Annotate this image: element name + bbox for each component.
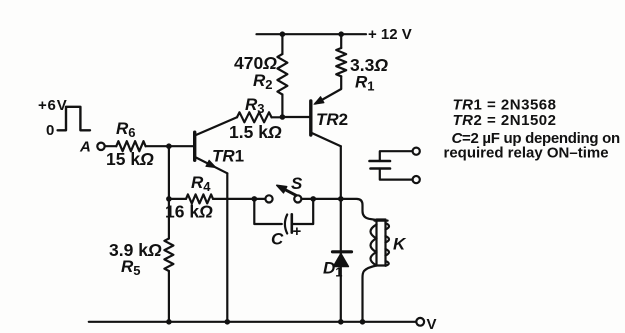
svg-text:0: 0: [46, 122, 54, 139]
node junction cap right: [310, 196, 316, 202]
terminal contact top: [413, 148, 420, 155]
diode D1: [333, 250, 352, 253]
wire R6 to TR1 base: [146, 145, 194, 147]
relay coil K: [377, 220, 386, 266]
svg-text:R5: R5: [121, 257, 141, 278]
resistor R3: [237, 112, 272, 122]
switch S left contact: [265, 195, 272, 202]
wire R1 to TR2 emitter: [316, 76, 342, 103]
wire R3 to junction: [272, 116, 283, 118]
node junction rail-R1: [338, 31, 344, 37]
wire R2 bottom lead: [281, 95, 283, 118]
switch S right contact: [294, 195, 301, 202]
terminal 0V: [416, 318, 424, 326]
node junction R2-R3-TR2base: [280, 114, 286, 120]
resistor R6: [116, 141, 145, 151]
wire +12V top rail: [257, 33, 367, 35]
wire TR2 collector vertical: [340, 146, 342, 322]
switch S blade: [283, 188, 297, 195]
node A terminal: [97, 143, 104, 150]
svg-text:required relay ON–time: required relay ON–time: [444, 145, 609, 162]
wire R1 top lead: [340, 34, 342, 48]
svg-text:R4: R4: [191, 173, 211, 194]
svg-text:C: C: [271, 230, 284, 249]
svg-text:3.9 kΩ: 3.9 kΩ: [109, 240, 162, 260]
wire relay branch: [341, 199, 377, 220]
node junction rail-relay: [360, 319, 366, 325]
source pulse waveform: [58, 107, 90, 131]
wire TR1 collector diagonal: [196, 117, 237, 135]
svg-text:S: S: [291, 174, 303, 193]
transistor TR1: [193, 132, 196, 160]
resistor R4: [186, 194, 213, 203]
wire capacitor loop right: [292, 199, 313, 224]
node junction base-R4 branch: [166, 143, 172, 149]
svg-text:R6: R6: [116, 119, 136, 140]
svg-text:R3: R3: [245, 95, 265, 116]
wire capacitor loop left: [254, 199, 281, 224]
svg-text:A: A: [79, 139, 91, 156]
node junction timing node left: [252, 196, 258, 202]
node junction rail-D1: [338, 319, 344, 325]
svg-text:TR2: TR2: [316, 110, 348, 129]
svg-text:+6V: +6V: [38, 97, 68, 114]
node junction rail-R5: [166, 319, 172, 325]
capacitor C: [285, 215, 287, 234]
terminal contact bottom: [413, 176, 420, 183]
wire left vertical down: [168, 146, 170, 238]
svg-text:TR2 = 2N1502: TR2 = 2N1502: [453, 112, 557, 129]
wire R2 top lead: [281, 34, 283, 54]
resistor R1: [336, 48, 346, 76]
resistor R5: [164, 239, 173, 272]
wire R4 leads: [169, 198, 265, 200]
wire A to R6: [105, 145, 117, 147]
transistor TR2: [309, 101, 312, 135]
wire 0V bottom rail: [89, 321, 417, 323]
svg-text:K: K: [393, 235, 407, 254]
svg-text:16 kΩ: 16 kΩ: [165, 202, 213, 222]
svg-text:470Ω: 470Ω: [234, 53, 277, 73]
relay contact plates: [370, 160, 391, 163]
svg-text:1.5 kΩ: 1.5 kΩ: [229, 122, 282, 142]
wire S to collector node: [301, 198, 340, 200]
node junction collector-relay: [338, 196, 344, 202]
node junction rail-R2: [280, 31, 286, 37]
wire contact top lead: [380, 151, 413, 161]
wire contact bottom lead: [380, 169, 413, 180]
svg-text:TR1: TR1: [212, 147, 244, 166]
svg-text:15 kΩ: 15 kΩ: [106, 149, 154, 169]
resistor R2: [277, 54, 287, 95]
wire relay coil bottom: [363, 266, 377, 322]
svg-text:R1: R1: [355, 73, 375, 94]
node junction R4 left: [166, 196, 172, 202]
svg-text:V: V: [427, 316, 437, 333]
wire TR1 emitter vertical: [226, 173, 228, 321]
wire R5 bottom lead: [168, 271, 170, 322]
svg-text:R2: R2: [253, 71, 273, 92]
svg-text:+ 12 V: + 12 V: [368, 26, 412, 43]
svg-text:+: +: [293, 223, 302, 240]
node junction rail-TR1emitter: [225, 319, 231, 325]
